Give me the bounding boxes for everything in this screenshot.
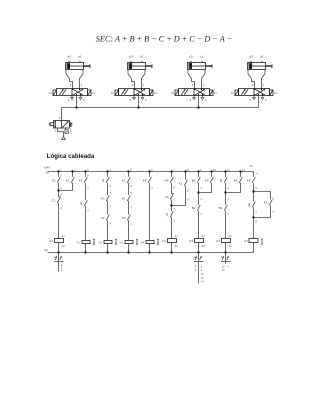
valve 3/2 start V0 (54, 121, 70, 129)
wire column 2 seal-in branch (59, 172, 73, 191)
connector col1 tails (58, 253, 60, 272)
svg-text:d0: d0 (247, 203, 251, 207)
valve 5/2 V1 (57, 89, 88, 96)
contact b2 limit (col4) (101, 177, 109, 183)
svg-text:11: 11 (227, 168, 230, 172)
tube cylinder C cap-side port to valve port 4 (188, 70, 195, 89)
rail +24V top (48, 171, 254, 173)
cylinder C body (188, 61, 213, 70)
relay coil K3 (189, 234, 205, 248)
wire numbers col4 (109, 184, 111, 226)
contact K2 (col4) (101, 215, 110, 221)
contact K4 (col13) (247, 177, 256, 183)
wire column 4 (107, 172, 109, 253)
tube cylinder A cap-side port to valve port 4 (66, 70, 73, 89)
tube cylinder B cap-side port to valve port 4 (128, 70, 135, 89)
exhaust 5 valve V1 (71, 96, 74, 100)
contact K4 seal-in (col12) (234, 177, 243, 183)
pilot 14 of valve V3 (175, 90, 179, 96)
tube cylinder D rod-side port to valve port 2 (262, 70, 266, 89)
svg-text:14: 14 (171, 91, 174, 95)
svg-text:12: 12 (214, 91, 217, 95)
svg-text:K3: K3 (101, 196, 105, 200)
exhaust 5 valve V3 (193, 96, 196, 100)
svg-text:10: 10 (213, 168, 216, 172)
svg-text:K3: K3 (264, 201, 268, 205)
port 3 silencer of start valve (65, 128, 68, 134)
contact d1 limit (col7) (165, 211, 173, 217)
svg-text:c1: c1 (200, 54, 204, 58)
pilot 12 of valve V2 (150, 90, 154, 96)
solenoid coil Y4 (140, 239, 159, 246)
junction supply line x138 (137, 106, 139, 108)
wire column 5 (128, 172, 130, 253)
svg-text:C1: C1 (164, 195, 168, 199)
svg-text:A1: A1 (175, 234, 179, 238)
counter coil C1 (244, 238, 263, 245)
rail 0V bottom (48, 252, 254, 254)
port 1 stub valve V2 (138, 96, 140, 108)
connector symbol under col9 (194, 256, 204, 262)
contact K1 (col3) (79, 177, 88, 183)
junction supply line x76 (75, 106, 77, 108)
svg-text:B1: B1 (219, 206, 223, 210)
relay coil K1 (49, 234, 65, 248)
contact K1 seal-in (col2) (66, 177, 75, 183)
connector col9 tail and terminal numbers (195, 253, 204, 284)
contact B1 (col9) (192, 177, 201, 183)
valve 5/2 V4 (239, 89, 270, 96)
svg-text:b2: b2 (101, 178, 105, 182)
svg-text:b0: b0 (219, 178, 223, 182)
contact B1 (col11) (219, 205, 228, 211)
cylinder D body (248, 61, 273, 70)
contact K2 (col5) (122, 195, 131, 201)
svg-text:K1: K1 (79, 178, 83, 182)
svg-text:d1: d1 (165, 213, 169, 217)
wire column 9 (198, 172, 200, 253)
exhaust 5 valve V4 (253, 96, 256, 100)
svg-text:K2: K2 (122, 196, 126, 200)
svg-text:Y1: Y1 (76, 240, 80, 244)
wire column 12 seal-in branch (226, 172, 241, 193)
wire column 13 (253, 172, 255, 253)
svg-text:b0: b0 (129, 54, 133, 58)
svg-text:a0: a0 (79, 202, 83, 206)
svg-text:d1: d1 (260, 54, 264, 58)
pilot 14 of valve V2 (115, 90, 119, 96)
wire column 1 (58, 172, 60, 253)
exhaust 3 valve V1 (79, 96, 82, 100)
valve 5/2 V3 (179, 89, 210, 96)
solenoid coil Y1 (76, 239, 95, 246)
parallel branch K3 contact (col13) (254, 192, 271, 218)
svg-text:A2: A2 (175, 244, 179, 248)
svg-text:A2: A2 (202, 244, 206, 248)
wire numbers col11 (227, 186, 229, 216)
solenoid coil Y2 (98, 239, 117, 246)
compressed air source symbol (62, 136, 66, 139)
svg-text:13: 13 (201, 276, 204, 280)
contact K4 (col7) (165, 177, 174, 183)
tube cylinder A rod-side port to valve port 2 (80, 70, 84, 89)
wire column 8 branch (172, 172, 186, 206)
svg-text:K3: K3 (122, 216, 126, 220)
svg-text:Y2: Y2 (98, 240, 102, 244)
wire numbers col13 (255, 186, 257, 223)
svg-text:B2: B2 (192, 206, 196, 210)
svg-text:+24V: +24V (43, 166, 50, 170)
cylinder B body (128, 61, 153, 70)
svg-text:12: 12 (154, 91, 157, 95)
svg-text:12: 12 (92, 91, 95, 95)
svg-text:S1: S1 (52, 178, 56, 182)
contact a0 limit (col3) (79, 200, 87, 206)
contact K3 seal-in (col10) (205, 177, 214, 183)
connector symbol under col11 (221, 256, 231, 262)
svg-text:K4: K4 (247, 178, 251, 182)
contact K3 branch (col13) (264, 200, 273, 206)
svg-text:12: 12 (242, 168, 245, 172)
svg-text:13: 13 (249, 164, 252, 168)
svg-text:13: 13 (222, 268, 225, 272)
contact K3 (col5) (122, 215, 131, 221)
contact b0 limit (col11) (219, 177, 227, 183)
manual actuator of start valve (49, 123, 54, 126)
wire numbers col1 (60, 173, 62, 210)
wire column 11 (225, 172, 227, 253)
svg-text:K2: K2 (101, 216, 105, 220)
svg-text:A1: A1 (229, 234, 233, 238)
svg-text:14: 14 (201, 280, 204, 284)
svg-text:d0: d0 (249, 54, 253, 58)
exhaust 3 valve V3 (201, 96, 204, 100)
svg-text:12: 12 (222, 264, 225, 268)
pilot 12 of valve V4 (270, 90, 274, 96)
exhaust 3 valve V2 (141, 96, 144, 100)
svg-text:C1: C1 (52, 199, 56, 203)
svg-text:a1: a1 (78, 54, 82, 58)
solenoid coil Y3 (119, 239, 138, 246)
wire column 3 (85, 172, 87, 253)
contact S1 start (col1) (52, 177, 61, 183)
valve 5/2 V2 (119, 89, 150, 96)
svg-text:K2: K2 (179, 181, 183, 185)
svg-text:SEC: A + B + B − C + D + C − D: SEC: A + B + B − C + D + C − D − A − (96, 35, 232, 44)
junction supply line x198 (197, 106, 199, 108)
svg-text:c0: c0 (189, 54, 193, 58)
wire column 10 seal-in branch (199, 172, 212, 193)
svg-text:K3: K3 (205, 178, 209, 182)
junction col13 top (252, 190, 254, 192)
svg-text:Y3: Y3 (119, 240, 123, 244)
wire numbers col3 (87, 173, 89, 212)
contact K3 (col4) (101, 195, 110, 201)
exhaust 3 valve V4 (261, 96, 264, 100)
wire numbers col8 (187, 189, 189, 202)
pilot 14 of valve V1 (53, 90, 57, 96)
cylinder A body (66, 61, 91, 70)
junction col11 parallel (224, 191, 226, 193)
contact C1 (col7) (164, 194, 173, 200)
svg-text:B1: B1 (192, 178, 196, 182)
svg-text:K4: K4 (165, 178, 169, 182)
tube cylinder D cap-side port to valve port 4 (248, 70, 255, 89)
contact B2 (col9) (192, 205, 201, 211)
port 1 stub valve V4 (258, 96, 260, 108)
port 1 stub valve V3 (198, 96, 200, 108)
wire numbers col9 (200, 186, 202, 216)
svg-text:10: 10 (45, 170, 49, 174)
connector col11 terminal numbers (222, 253, 230, 273)
svg-text:12: 12 (274, 91, 277, 95)
pilot 14 of valve V4 (235, 90, 239, 96)
relay coil K2 (162, 234, 178, 248)
svg-text:C1: C1 (244, 239, 248, 243)
pilot 12 of valve V3 (210, 90, 214, 96)
svg-text:K1: K1 (122, 178, 126, 182)
svg-text:K4: K4 (143, 178, 147, 182)
wire numbers top (60, 164, 259, 176)
spring of start valve (70, 123, 72, 127)
svg-text:A1: A1 (202, 234, 206, 238)
wire numbers col7 (173, 186, 175, 223)
port 1 stub valve V1 (76, 96, 78, 108)
bottom rail junctions (57, 251, 226, 253)
svg-text:K4: K4 (216, 239, 220, 243)
relay coil K4 (216, 234, 232, 248)
port 1 of start valve to air source (58, 128, 64, 136)
tube cylinder B rod-side port to valve port 2 (142, 70, 146, 89)
junction col9 parallel (197, 191, 199, 193)
svg-text:14: 14 (111, 91, 114, 95)
connector symbol under col1 (54, 256, 64, 262)
svg-text:A2: A2 (62, 244, 66, 248)
svg-text:A1: A1 (62, 234, 66, 238)
svg-text:a0: a0 (67, 54, 71, 58)
wire numbers col6 (151, 186, 153, 190)
svg-text:b1: b1 (140, 54, 144, 58)
svg-text:Lógica cableada: Lógica cableada (47, 153, 95, 160)
exhaust 5 valve V2 (133, 96, 136, 100)
contact d0 limit (col13) (247, 202, 255, 208)
wire numbers col5 (130, 184, 132, 226)
branch pin numbers (273, 197, 275, 214)
contact K4 (col6) (143, 177, 152, 183)
svg-text:K1: K1 (66, 178, 70, 182)
svg-text:12: 12 (201, 272, 204, 276)
svg-text:A2: A2 (229, 244, 233, 248)
tube cylinder C rod-side port to valve port 2 (202, 70, 206, 89)
contact C1 counter (col1) (52, 197, 61, 203)
svg-text:K4: K4 (234, 178, 238, 182)
svg-text:K3: K3 (189, 239, 193, 243)
svg-text:14: 14 (49, 91, 52, 95)
svg-text:14: 14 (231, 91, 234, 95)
junction col7 branch (170, 204, 172, 206)
wire column 7 (171, 172, 173, 253)
junction col13 bottom (252, 216, 254, 218)
wire column 6 (149, 172, 151, 253)
junction col1 parallel (57, 189, 59, 191)
contact K1 (col5) (122, 177, 131, 183)
air supply manifold line (62, 108, 259, 121)
svg-text:K1: K1 (49, 239, 53, 243)
contact K2 (col8) (179, 180, 188, 186)
svg-text:Y4: Y4 (140, 240, 144, 244)
top rail junctions (57, 170, 241, 172)
pilot 12 of valve V1 (88, 90, 92, 96)
svg-text:0V: 0V (44, 248, 48, 252)
svg-text:K2: K2 (162, 239, 166, 243)
